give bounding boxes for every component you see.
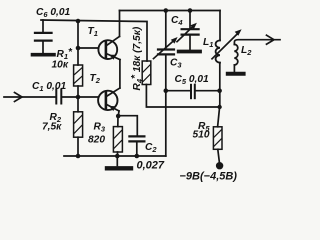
node: C2 bottom: [135, 154, 140, 159]
transistor T1 collector: [106, 36, 119, 45]
node: tank rail / C3: [164, 8, 169, 13]
capacitor C2 plates: [129, 135, 144, 137]
wire: C3 top lead: [165, 11, 167, 49]
wire: emitter node to R3: [117, 116, 119, 127]
wire: L2 bottom lead: [233, 65, 235, 72]
output arrow head: [267, 35, 275, 44]
wire: bias rail from C6 to R4 corner: [41, 20, 147, 61]
resistor R1: [74, 65, 83, 86]
wire: stub to chassis bar: [116, 156, 118, 166]
svg-text:T2: T2: [90, 73, 101, 85]
transistor T2 base bar: [105, 93, 108, 109]
capacitor C6 top lead: [42, 20, 44, 32]
capacitor C3 (variable) plates: [158, 48, 174, 50]
svg-text:C4: C4: [171, 15, 183, 27]
node: C5/L1/R5 junction: [217, 88, 222, 93]
wire: T2 emitter lead down: [117, 111, 120, 116]
node: tank rail / C4: [188, 8, 193, 13]
wire: C5 line right: [196, 90, 220, 92]
svg-text:C5 0,01: C5 0,01: [175, 74, 210, 86]
transistor T1 base bar: [105, 42, 108, 58]
svg-text:−9В(−4,5В): −9В(−4,5В): [180, 171, 238, 183]
wire: C4 top lead: [189, 11, 191, 29]
wire: T1 emitter to T2 collector: [119, 60, 121, 88]
node: T2 emitter junction: [116, 114, 121, 119]
svg-text:C6 0,01: C6 0,01: [36, 7, 71, 19]
wire: L2 top to output line: [234, 40, 280, 45]
node: T1 base tap: [76, 46, 81, 51]
wire: R2 bottom lead: [77, 137, 79, 156]
inductor arrow through L1/L2 (tuning core): [212, 33, 238, 59]
svg-text:0,027: 0,027: [137, 160, 165, 172]
svg-text:R3: R3: [94, 122, 106, 134]
capacitor C4 arrow: [177, 26, 194, 42]
node: R2 bottom: [76, 154, 81, 159]
wire: L1 bottom to C5 node: [219, 63, 221, 107]
ground bar under R3: [107, 166, 131, 170]
transistor T1 emitter: [106, 54, 120, 60]
node: R3 bottom: [115, 154, 120, 159]
input arrow head: [15, 93, 23, 102]
capacitor C6 plates: [35, 32, 52, 34]
transistor T2 emitter: [106, 104, 119, 111]
ground bar under C4: [179, 50, 200, 54]
wire: R3 bottom lead: [117, 152, 119, 156]
svg-text:7,5к: 7,5к: [42, 122, 62, 133]
wire: R5 top lead: [218, 107, 220, 127]
wire: T1 collector to tank rail (crosses bias rail, no dot): [119, 11, 121, 37]
wire: R1 bottom lead: [77, 86, 79, 97]
wire: tank top rail: [120, 10, 221, 12]
svg-text:L1: L1: [203, 37, 213, 49]
inductor L1 (3 humps): [216, 40, 220, 62]
wire: C2 bottom lead: [136, 143, 138, 157]
wire: ground line (R2,R3,C2,C3 common): [64, 155, 166, 157]
svg-text:820: 820: [88, 135, 105, 146]
capacitor C1 plates: [55, 90, 57, 104]
wire: R4 bottom to supply rail: [146, 85, 219, 108]
wire: R5 bottom lead: [218, 149, 220, 162]
capacitor C6 bottom lead: [42, 42, 44, 53]
capacitor C4 (trimmer) plates: [182, 28, 199, 30]
node: R1 top on bias rail: [76, 19, 81, 24]
inductor L2 (3 humps): [234, 44, 237, 65]
resistor R5: [213, 127, 222, 150]
resistor R3: [113, 127, 122, 152]
wire: C1 to T2 base: [62, 96, 98, 98]
svg-text:C2: C2: [145, 142, 157, 154]
wire: right branch vertical (tank rail corner down to L1): [219, 11, 221, 41]
ground bar under L2: [228, 72, 244, 76]
wire: C5 line left: [166, 90, 190, 92]
transistor T1 circle: [98, 40, 117, 59]
wire: R2 top lead: [77, 97, 79, 112]
transistor T2 collector: [106, 88, 120, 96]
capacitor C5 plates: [190, 85, 192, 98]
wire: emitter node to C2: [118, 116, 137, 136]
wire: C4 bottom lead: [189, 36, 191, 50]
svg-text:510: 510: [193, 130, 210, 141]
svg-text:C1 0,01: C1 0,01: [32, 81, 67, 93]
svg-text:C3: C3: [170, 58, 182, 70]
wire: input line from antenna arrow to C1: [4, 96, 56, 98]
resistor R2: [74, 112, 83, 137]
wire: C3 bottom lead down to ground line (crosses supply rail, no dot): [165, 56, 167, 157]
capacitor C3 arrow: [154, 40, 175, 58]
wire: T1 base: [78, 47, 98, 49]
svg-text:L2: L2: [241, 45, 252, 57]
svg-text:T1: T1: [88, 26, 98, 38]
wire: R1 top lead: [77, 21, 79, 65]
node: junction R1/R2/C1/T2-base: [76, 95, 81, 100]
ground bar under C6: [33, 53, 55, 57]
transistor T2 emitter arrow (PNP, into base): [109, 106, 116, 111]
transistor T2 circle: [98, 91, 117, 110]
node: supply rail / R5: [217, 105, 221, 109]
resistor R4: [142, 61, 151, 85]
transistor T1 emitter arrow (PNP, into base): [109, 55, 116, 60]
svg-text:R4* 18к (7,5к): R4* 18к (7,5к): [130, 26, 144, 90]
node: C3/C5 junction: [164, 88, 169, 93]
svg-text:10к: 10к: [52, 60, 69, 71]
supply terminal -9V: [216, 162, 223, 169]
